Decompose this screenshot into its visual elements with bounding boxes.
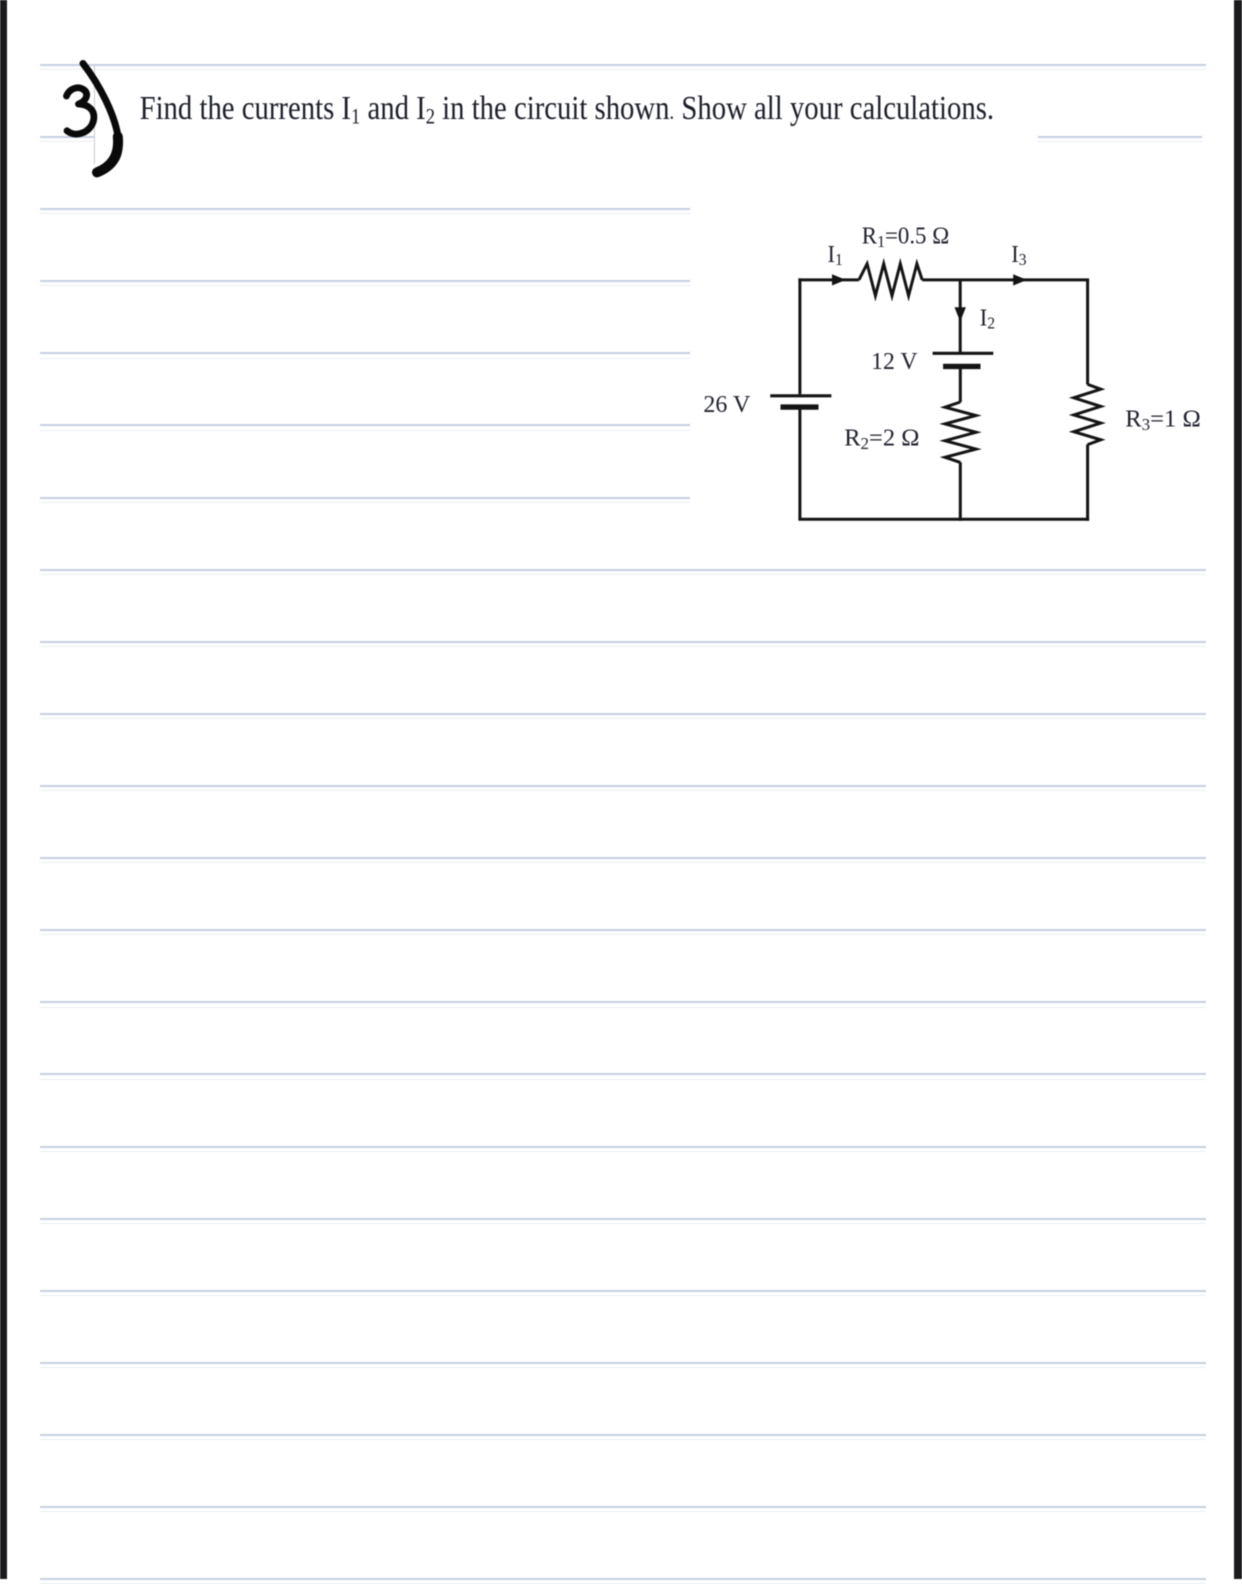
svg-text:R2=2 Ω: R2=2 Ω: [844, 424, 919, 453]
svg-text:R3=1 Ω: R3=1 Ω: [1125, 406, 1201, 434]
svg-text:I1: I1: [828, 241, 843, 269]
svg-text:I3: I3: [1011, 241, 1026, 269]
svg-text:I2: I2: [980, 305, 995, 333]
svg-text:26 V: 26 V: [703, 391, 750, 418]
svg-text:R1=0.5 Ω: R1=0.5 Ω: [862, 223, 949, 251]
svg-text:12 V: 12 V: [871, 349, 918, 375]
svg-text:Find the currents I1 and I2 in: Find the currents I1 and I2 in the circu…: [140, 89, 994, 129]
